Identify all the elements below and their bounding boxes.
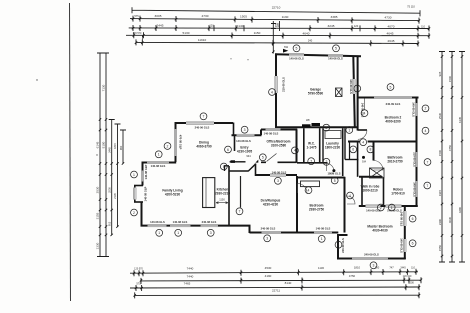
svg-text:140-09 GLS: 140-09 GLS	[400, 238, 404, 253]
wall office top	[261, 129, 297, 131]
svg-text:1130: 1130	[318, 266, 324, 270]
door arc bedroom3	[298, 184, 308, 194]
svg-text:1600-2210: 1600-2210	[362, 189, 377, 193]
svg-text:4060-3790: 4060-3790	[196, 145, 211, 149]
wall master top	[359, 205, 418, 207]
svg-text:1505: 1505	[240, 14, 247, 18]
svg-text:210-09 GLS: 210-09 GLS	[412, 152, 416, 167]
window living bottom 1	[148, 224, 167, 227]
top row 4 chain	[126, 34, 429, 36]
wall laundry right	[342, 128, 344, 176]
door leaf entry diagonal	[267, 154, 277, 162]
svg-text:140-06 GLS: 140-06 GLS	[328, 57, 343, 61]
svg-text:75 110: 75 110	[407, 4, 415, 8]
wall robe divider west	[361, 177, 363, 206]
svg-text:6: 6	[412, 242, 414, 246]
svg-text:7: 7	[239, 210, 241, 214]
svg-text:120 570: 120 570	[133, 32, 142, 35]
svg-text:4000-3200: 4000-3200	[385, 120, 400, 124]
svg-text:1815: 1815	[113, 143, 117, 149]
window labels vertical	[144, 77, 417, 253]
wall bedroom2 bottom	[348, 141, 418, 143]
svg-text:140-08 GLS: 140-08 GLS	[264, 132, 279, 136]
svg-text:140-08 GLS: 140-08 GLS	[173, 220, 188, 224]
window garage left vertical	[275, 76, 278, 93]
svg-text:2: 2	[325, 160, 327, 164]
wall pantry corner	[224, 166, 229, 171]
crossed box garage	[336, 88, 343, 97]
svg-text:8: 8	[369, 148, 371, 152]
svg-text:1810: 1810	[354, 266, 361, 270]
svg-text:3245: 3245	[328, 24, 335, 28]
svg-text:4230-4230: 4230-4230	[263, 203, 278, 207]
svg-text:1: 1	[338, 243, 340, 247]
svg-text:5130: 5130	[183, 31, 190, 35]
svg-text:180M GLS: 180M GLS	[328, 172, 341, 176]
svg-text:5790-5590: 5790-5590	[308, 92, 323, 96]
top row 1 overall	[132, 7, 420, 16]
svg-text:4750: 4750	[349, 274, 356, 278]
kitchen bench line	[240, 176, 242, 208]
svg-text:5: 5	[223, 165, 225, 169]
wall master bottom	[337, 258, 406, 260]
svg-text:4190: 4190	[265, 274, 272, 278]
door arc laundry	[327, 163, 335, 171]
svg-text:4: 4	[308, 189, 310, 193]
window living bottom 2	[170, 224, 191, 227]
window labels horizontal	[150, 57, 402, 257]
wall bedroom2 top	[358, 97, 419, 99]
window office top	[266, 128, 281, 131]
svg-text:8: 8	[325, 126, 327, 130]
kitchen bench upper line	[230, 161, 246, 163]
svg-text:1150: 1150	[219, 198, 225, 202]
top row 2 chain	[130, 19, 419, 21]
svg-text:7440: 7440	[187, 266, 194, 270]
window bay left vertical	[133, 188, 136, 200]
svg-text:4030-4030: 4030-4030	[372, 229, 387, 233]
window robes east vertical	[415, 181, 418, 197]
wall garage bottom	[275, 126, 358, 128]
stair marks garage door (black blocks)	[302, 124, 311, 127]
svg-text:4645: 4645	[387, 32, 394, 36]
svg-text:5: 5	[390, 85, 392, 89]
svg-text:240: 240	[275, 23, 280, 26]
svg-text:4640: 4640	[303, 31, 310, 35]
svg-text:1: 1	[348, 128, 350, 132]
svg-text:4: 4	[425, 129, 427, 133]
svg-text:2445: 2445	[157, 23, 164, 27]
walls	[134, 53, 419, 259]
wardrobe rect bedroom	[301, 181, 320, 187]
wall hall left / bedroom right	[344, 177, 346, 233]
wall living top	[142, 162, 177, 164]
svg-text:2445: 2445	[107, 147, 111, 153]
wall linen closet left	[349, 142, 351, 160]
svg-text:7: 7	[310, 160, 312, 164]
svg-text:3: 3	[277, 179, 279, 183]
wall south step	[249, 226, 251, 233]
window master right vertical 1	[403, 211, 406, 226]
svg-text:7: 7	[426, 184, 428, 188]
svg-text:4: 4	[271, 90, 273, 94]
svg-text:3385: 3385	[331, 15, 338, 19]
wall south right	[250, 232, 339, 234]
wall wc right	[319, 128, 321, 163]
wall bathroom left partial	[373, 142, 375, 161]
svg-text:120 910: 120 910	[403, 275, 412, 278]
svg-text:1-1475: 1-1475	[307, 146, 317, 150]
window south 2	[314, 231, 332, 234]
svg-text:3: 3	[266, 237, 268, 241]
wall den/bedroom divider	[296, 176, 298, 233]
svg-text:6145: 6145	[96, 141, 100, 148]
svg-text:3005: 3005	[155, 14, 162, 18]
svg-text:4230-1905: 4230-1905	[237, 150, 252, 154]
wall dining left	[175, 123, 177, 162]
wall bay bottom	[134, 201, 143, 203]
svg-text:140-09 GLS: 140-09 GLS	[349, 79, 353, 94]
wall wc left	[303, 128, 305, 163]
svg-text:2530: 2530	[107, 187, 111, 193]
svg-text:7130: 7130	[102, 84, 106, 91]
svg-text:4: 4	[294, 149, 296, 153]
wall master right	[404, 206, 406, 259]
svg-text:140-08 GLS: 140-08 GLS	[272, 171, 287, 175]
wall living left lower	[141, 202, 143, 226]
wall bay left	[134, 186, 136, 203]
svg-text:1915: 1915	[438, 189, 442, 196]
wall garage top	[275, 54, 361, 56]
svg-text:3: 3	[244, 128, 246, 132]
small vertical dim near garage corner	[271, 21, 280, 54]
svg-text:1: 1	[133, 173, 135, 177]
wall hall east lower	[357, 142, 359, 177]
svg-text:1150: 1150	[254, 31, 261, 35]
svg-text:1500: 1500	[438, 149, 442, 156]
wall linen closet bottom	[345, 159, 359, 161]
svg-text:2: 2	[425, 107, 427, 111]
svg-text:575: 575	[136, 282, 141, 286]
window den top	[270, 174, 286, 177]
dimension chains: bottom block	[130, 269, 422, 299]
svg-text:140-06 GLS: 140-06 GLS	[289, 57, 304, 61]
wall hall left upper	[344, 128, 346, 159]
wall entry closet	[255, 164, 257, 177]
wall robe divider east	[383, 178, 385, 206]
window living top	[147, 161, 169, 164]
svg-text:4200-5230: 4200-5230	[165, 193, 180, 197]
svg-text:1700-910: 1700-910	[391, 192, 405, 196]
wall bay top	[134, 185, 143, 187]
wall entry top	[232, 134, 262, 136]
svg-text:2445: 2445	[400, 266, 406, 269]
svg-text:4140: 4140	[237, 24, 244, 28]
svg-text:2610-2750: 2610-2750	[387, 160, 402, 164]
top row 3 chain	[129, 27, 429, 30]
svg-text:960: 960	[119, 145, 123, 150]
wall laundry left	[322, 128, 324, 163]
window dining top	[186, 122, 214, 125]
svg-text:2390: 2390	[438, 218, 442, 225]
wall under wc	[297, 162, 328, 164]
wall stair diagonal	[248, 164, 256, 172]
wall living left upper	[142, 163, 144, 186]
svg-text:2930-2750: 2930-2750	[309, 208, 324, 212]
svg-text:11910: 11910	[198, 38, 207, 42]
wall office bottom segments	[261, 161, 297, 163]
wall kitchen left	[228, 166, 230, 226]
dimension chains: right block	[439, 52, 465, 263]
svg-text:2530: 2530	[96, 186, 100, 193]
svg-text:575: 575	[134, 14, 139, 18]
svg-text:210-09 GLS: 210-09 GLS	[282, 77, 286, 92]
svg-text:140-08 GLS: 140-08 GLS	[236, 139, 251, 143]
svg-text:140-09 GLS: 140-09 GLS	[366, 208, 381, 212]
svg-text:4: 4	[362, 141, 364, 145]
window bedroom2 top	[374, 96, 412, 99]
black blob kitchen corner	[231, 160, 236, 163]
svg-text:2930-2230: 2930-2230	[215, 192, 230, 196]
svg-text:140-08 GLP: 140-08 GLP	[144, 164, 148, 179]
door arc bathroom	[374, 161, 384, 171]
svg-text:140-09 GLS: 140-09 GLS	[411, 102, 415, 117]
svg-text:7440: 7440	[187, 275, 194, 279]
fireplace rectangle	[203, 178, 215, 208]
svg-text:1200: 1200	[408, 280, 414, 284]
svg-text:915: 915	[107, 221, 111, 226]
laundry door dot	[332, 169, 335, 172]
svg-text:240-09 GLS: 240-09 GLS	[364, 253, 379, 257]
entry door threshold black wedge	[255, 160, 258, 163]
laundry tub rect	[325, 131, 341, 139]
svg-text:WF: WF	[306, 118, 310, 122]
window master top 1	[366, 205, 381, 208]
top dimension texts	[133, 4, 426, 42]
svg-text:6: 6	[412, 217, 414, 221]
svg-text:1: 1	[158, 231, 160, 235]
svg-text:2645: 2645	[388, 39, 395, 43]
svg-text:2: 2	[133, 211, 135, 215]
wall master jog	[337, 234, 348, 236]
window master right vertical 2	[403, 239, 406, 252]
svg-text:4070: 4070	[388, 24, 395, 28]
wall east upper (bedroom2/bathroom right)	[416, 98, 418, 207]
svg-text:140-09 GLS: 140-09 GLS	[412, 182, 416, 197]
windows (glazing bands)	[133, 53, 418, 260]
bathroom door dot	[362, 156, 365, 159]
svg-text:22710: 22710	[272, 5, 281, 9]
window garage top 1	[289, 53, 304, 56]
svg-text:7: 7	[203, 115, 205, 119]
svg-text:4280: 4280	[458, 206, 462, 213]
door arc hall-bedroom2	[358, 130, 367, 139]
svg-text:4530: 4530	[265, 266, 272, 270]
wall kitchen top	[229, 170, 248, 172]
svg-text:934: 934	[362, 161, 367, 164]
svg-text:240-08 GLS: 240-08 GLS	[261, 227, 276, 231]
svg-text:3155: 3155	[96, 212, 100, 219]
dimension chains: left block	[97, 53, 126, 257]
svg-text:4750: 4750	[448, 144, 452, 151]
svg-text:240-06 GLS: 240-06 GLS	[195, 125, 210, 129]
svg-text:2530: 2530	[438, 112, 442, 119]
svg-text:1: 1	[321, 237, 323, 241]
svg-text:110: 110	[411, 266, 415, 269]
svg-text:4: 4	[349, 194, 351, 198]
window living left upper vertical	[141, 171, 144, 182]
speck	[36, 79, 37, 80]
svg-text:140-08 GLS: 140-08 GLS	[151, 164, 166, 168]
svg-text:5: 5	[335, 47, 337, 51]
window dining left vertical	[174, 129, 177, 156]
svg-text:3: 3	[373, 264, 375, 268]
svg-text:934: 934	[246, 154, 251, 158]
svg-text:240: 240	[308, 38, 313, 42]
svg-text:120: 120	[209, 24, 214, 28]
svg-text:5100: 5100	[102, 141, 106, 148]
kitchen width arrow	[216, 202, 228, 204]
svg-text:2: 2	[167, 144, 169, 148]
svg-text:1550: 1550	[438, 244, 442, 251]
wall living/south bottom	[141, 225, 251, 227]
svg-text:4730: 4730	[385, 16, 392, 20]
svg-text:747: 747	[389, 265, 394, 269]
svg-text:1330: 1330	[96, 242, 100, 249]
wall garage left	[275, 53, 277, 128]
svg-text:1800-2230: 1800-2230	[325, 146, 340, 150]
svg-text:6145: 6145	[458, 116, 462, 123]
svg-text:140-09 GLS: 140-09 GLS	[361, 103, 365, 118]
svg-text:4730: 4730	[202, 14, 209, 18]
svg-text:240-09 GLS: 240-09 GLS	[386, 102, 401, 106]
window/door tag circles	[131, 45, 431, 269]
wall mid long (den/bedroom top)	[256, 175, 345, 178]
svg-text:140-09 GLS: 140-09 GLS	[400, 212, 404, 227]
wall office right	[296, 130, 298, 163]
svg-text:2135: 2135	[113, 193, 117, 199]
svg-text:5: 5	[334, 179, 336, 183]
svg-text:6: 6	[352, 148, 354, 152]
wall office jog	[260, 130, 262, 136]
svg-text:120 570: 120 570	[134, 268, 143, 271]
svg-text:140-08 GLS: 140-08 GLS	[150, 220, 165, 224]
wall bedroom2 door jamb	[358, 129, 367, 131]
crossed box shower	[370, 168, 385, 178]
wall garage right	[353, 56, 355, 127]
wall entry left	[234, 135, 236, 151]
svg-text:SW: SW	[284, 45, 289, 49]
svg-text:1: 1	[158, 153, 160, 157]
svg-text:6: 6	[227, 148, 229, 152]
svg-text:240-08 GLS: 240-08 GLS	[202, 220, 217, 224]
wall dining corner drop	[233, 123, 235, 136]
svg-text:4030: 4030	[448, 216, 452, 223]
window garage top 2	[328, 54, 343, 57]
window living bottom 3	[201, 224, 219, 227]
svg-text:3: 3	[210, 231, 212, 235]
svg-text:140-08 GLS: 140-08 GLS	[316, 227, 331, 231]
window garage right vertical	[353, 79, 356, 94]
window master top 2	[386, 205, 402, 208]
wall hall upper left (bedroom2 left)	[357, 56, 359, 130]
svg-text:110: 110	[421, 26, 425, 29]
wall master left lower	[337, 235, 339, 259]
window bathroom right vertical	[415, 152, 418, 167]
svg-text:7: 7	[427, 160, 429, 164]
svg-text:1130: 1130	[282, 15, 289, 19]
top row 5 chain	[136, 42, 418, 43]
svg-text:1: 1	[177, 231, 179, 235]
window south 1	[262, 231, 282, 234]
svg-text:5: 5	[262, 156, 264, 160]
svg-text:240-09 GLS: 240-09 GLS	[341, 238, 345, 253]
window bedroom2 right vertical	[415, 103, 418, 116]
door arc hall-master	[347, 196, 355, 204]
svg-text:1: 1	[356, 87, 358, 91]
dimension chains: top block	[126, 7, 430, 53]
meter box flag top wall	[283, 49, 288, 53]
svg-text:7465: 7465	[184, 281, 191, 285]
svg-text:1500: 1500	[448, 75, 452, 82]
wall dining top	[175, 122, 234, 124]
svg-text:5: 5	[296, 47, 298, 51]
svg-text:900: 900	[375, 266, 380, 270]
svg-text:22711: 22711	[272, 289, 280, 293]
svg-text:3100-2580: 3100-2580	[271, 144, 286, 148]
svg-text:140-08 GLP: 140-08 GLP	[144, 186, 148, 201]
window entry top	[237, 134, 255, 137]
room labels	[162, 88, 405, 233]
window master bottom	[352, 257, 388, 260]
svg-text:470-08 GLP: 470-08 GLP	[179, 135, 183, 150]
svg-text:965: 965	[438, 71, 442, 76]
svg-text:120: 120	[354, 24, 359, 28]
page border line left	[70, 3, 71, 301]
fireplace inner line	[205, 178, 207, 208]
wall bathroom bottom	[359, 176, 382, 178]
svg-text:8140: 8140	[285, 281, 292, 285]
